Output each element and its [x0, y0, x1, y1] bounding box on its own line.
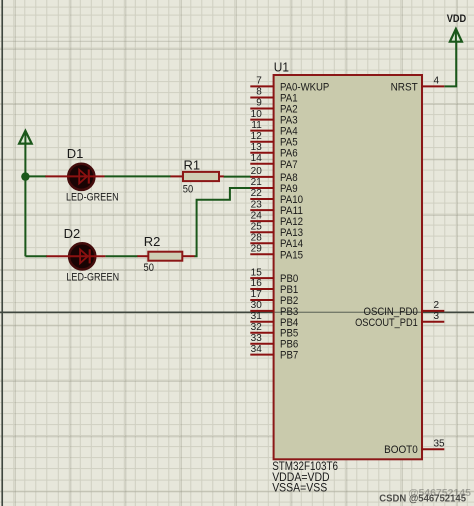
pin 15 PB0 [250, 267, 298, 285]
svg-text:10: 10 [251, 109, 263, 120]
svg-text:LED-GREEN: LED-GREEN [66, 272, 119, 284]
pin 11 PA4 [250, 120, 297, 138]
pin 12 PA5 [250, 131, 297, 149]
svg-text:15: 15 [251, 267, 263, 278]
pin 30 PB3 [250, 300, 298, 318]
pin 24 PA12 [250, 210, 303, 228]
svg-text:4: 4 [434, 76, 440, 87]
wire R1 to pin PA8 [224, 176, 251, 178]
svg-text:PB7: PB7 [280, 350, 298, 362]
svg-text:BOOT0: BOOT0 [384, 444, 418, 456]
svg-text:29: 29 [251, 244, 263, 255]
svg-text:D1: D1 [67, 146, 84, 161]
svg-text:20: 20 [251, 166, 263, 177]
VDD power arrow (top right) [450, 29, 462, 42]
svg-text:31: 31 [251, 311, 263, 322]
resistor R1 [170, 172, 223, 181]
pin 22 PA10 [250, 188, 303, 206]
pin 16 PB1 [250, 278, 298, 296]
svg-text:50: 50 [144, 262, 154, 274]
svg-text:33: 33 [251, 333, 263, 344]
svg-text:2: 2 [434, 300, 440, 311]
svg-text:16: 16 [251, 278, 263, 289]
svg-text:PA7: PA7 [280, 159, 298, 171]
pin 3 OSCOUT_PD1 [355, 311, 444, 329]
pin 31 PB4 [250, 311, 298, 329]
axis overlay inside IC [275, 311, 421, 313]
pin 20 PA8 [250, 166, 297, 184]
svg-text:7: 7 [256, 76, 262, 87]
svg-text:35: 35 [434, 438, 446, 449]
wire D2 to R2 [105, 255, 137, 257]
svg-text:@546752145: @546752145 [408, 487, 471, 499]
pin 4 NRST [391, 76, 445, 94]
wire arrow to junction [24, 144, 26, 177]
pin 21 PA9 [250, 177, 297, 195]
svg-text:R2: R2 [144, 234, 161, 249]
svg-text:28: 28 [251, 232, 263, 243]
pin 9 PA2 [250, 98, 297, 116]
svg-text:8: 8 [256, 87, 262, 98]
resistor R2 [137, 252, 194, 261]
svg-text:23: 23 [251, 199, 263, 210]
vertical origin axis [1, 0, 3, 506]
svg-text:25: 25 [251, 221, 263, 232]
svg-text:VSSA=VSS: VSSA=VSS [272, 482, 327, 494]
pin 7 PA0-WKUP [250, 76, 329, 94]
svg-text:11: 11 [251, 120, 262, 131]
pin 10 PA3 [250, 109, 297, 127]
pin 23 PA11 [250, 199, 303, 217]
pin 29 PA15 [250, 244, 303, 262]
svg-text:21: 21 [251, 177, 263, 188]
svg-text:PA15: PA15 [280, 249, 303, 261]
svg-text:9: 9 [256, 98, 262, 109]
wire NRST to VDD [444, 42, 456, 87]
pin 13 PA6 [250, 142, 297, 160]
LED D1 [45, 164, 104, 190]
horizontal origin axis [0, 311, 474, 313]
pin 34 PB7 [250, 344, 298, 362]
svg-text:D2: D2 [64, 226, 81, 241]
wire junction down to D2 row [24, 176, 26, 256]
svg-text:14: 14 [251, 153, 263, 164]
pin 35 BOOT0 [384, 438, 445, 456]
svg-text:R1: R1 [184, 158, 201, 173]
pin 33 PB6 [250, 333, 298, 351]
svg-text:OSCOUT_PD1: OSCOUT_PD1 [355, 317, 418, 329]
svg-text:13: 13 [251, 142, 263, 153]
node junction [21, 172, 29, 180]
wire to D2 [25, 255, 47, 257]
svg-text:34: 34 [251, 344, 263, 355]
svg-text:12: 12 [251, 131, 263, 142]
pin 14 PA7 [250, 153, 297, 171]
pin 2 OSCIN_PD0 [364, 300, 445, 318]
svg-text:30: 30 [251, 300, 263, 311]
wire R2 to pin PA9 [194, 188, 251, 256]
svg-text:LED-GREEN: LED-GREEN [66, 191, 119, 203]
pin 25 PA13 [250, 221, 303, 239]
pin 28 PA14 [250, 232, 303, 250]
wire junction to D1 [25, 175, 46, 177]
power arrow (left) [19, 131, 32, 144]
svg-text:32: 32 [251, 322, 263, 333]
pin 17 PB2 [250, 289, 298, 307]
svg-text:U1: U1 [274, 59, 289, 74]
pin 32 PB5 [250, 322, 298, 340]
svg-text:VDD: VDD [447, 13, 467, 25]
LED D2 [46, 243, 105, 269]
svg-text:3: 3 [434, 311, 440, 322]
svg-text:50: 50 [183, 183, 193, 195]
wire D1 to R1 [105, 175, 171, 177]
svg-text:NRST: NRST [391, 81, 418, 93]
svg-text:24: 24 [251, 210, 263, 221]
svg-text:22: 22 [251, 188, 263, 199]
op IC U1 body [274, 75, 422, 459]
pin 8 PA1 [250, 87, 297, 105]
svg-text:17: 17 [251, 289, 263, 300]
